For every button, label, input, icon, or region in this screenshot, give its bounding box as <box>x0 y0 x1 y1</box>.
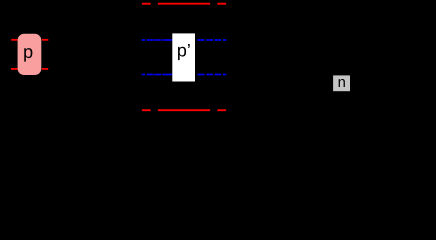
wire: blue dashed line upper, right of p' <box>197 39 226 41</box>
wire: red dashed leg, left-top of tensor p <box>11 39 17 41</box>
wire: red dashed line below tensor p' (segment 2) <box>158 109 210 111</box>
tensor p' (white rectangular node) <box>172 33 195 81</box>
label p' <box>178 47 186 60</box>
wire: red dashed line above tensor p' (segment 1) <box>142 3 151 5</box>
tensor p (pink rounded node) <box>18 34 42 75</box>
wire: red dashed line above tensor p' (segment 2) <box>158 3 210 5</box>
wire: red dashed leg, right-top of tensor p <box>42 39 48 41</box>
wire: red dashed line above tensor p' (segment 3) <box>217 3 226 5</box>
wire: blue dashed line lower, right of p' <box>197 74 226 76</box>
label n <box>339 79 345 87</box>
wire: blue dashed line upper, left of p' <box>142 39 173 41</box>
wire: red dashed line below tensor p' (segment 3) <box>217 109 226 111</box>
label p <box>24 48 32 62</box>
wire: red dashed line below tensor p' (segment 1) <box>142 109 151 111</box>
wire: blue dashed line lower, left of p' <box>142 74 173 76</box>
wire: red dashed leg, left-bottom of tensor p <box>11 68 18 70</box>
wire: red dashed leg, right-bottom of tensor p <box>42 68 48 70</box>
bond-dimension label box n <box>333 75 350 91</box>
